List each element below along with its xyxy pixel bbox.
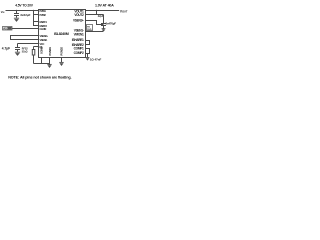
svg-text:22µF: 22µF [98,15,104,18]
svg-text:3x22µF: 3x22µF [20,13,30,17]
resistor box RVS [87,25,93,32]
svg-text:VSEN2-: VSEN2- [40,38,48,42]
wire VOUT rail [86,10,120,12]
ground triangle T4 [86,57,90,59]
wire COMP tie [86,49,90,54]
svg-text:VDD: VDD [3,29,8,31]
wire COMP tie ground stub [87,54,89,58]
svg-text:4.5V TO 20V: 4.5V TO 20V [15,3,34,7]
ground arrow under C1 [14,17,19,19]
junction dot rail-C1 [16,10,18,12]
svg-text:VIN: VIN [1,10,5,14]
wire VDD to CLKIN pin [12,28,39,30]
svg-text:ISL8240M: ISL8240M [54,32,69,36]
node VDD label box [3,27,13,31]
svg-text:RFS2: RFS2 [22,48,29,50]
svg-text:COMP2: COMP2 [74,51,84,55]
svg-text:VOUT: VOUT [120,9,128,13]
svg-text:VOUT2: VOUT2 [74,13,84,17]
capacitor C1 [14,11,19,18]
svg-text:PGND1: PGND1 [48,47,52,56]
svg-text:CLKIN: CLKIN [40,27,47,31]
junction dot rail drop [96,10,98,12]
svg-text:ISHARE1: ISHARE1 [72,38,84,42]
wire rail drop [96,11,98,15]
svg-text:NOTE: All pins not shown are f: NOTE: All pins not shown are floating. [8,76,71,80]
wire PGND2 pin stub [61,58,63,63]
svg-text:COMP1: COMP1 [74,46,84,50]
wire VSEN1- sense [86,31,104,33]
svg-text:EN/FF1: EN/FF1 [40,20,48,24]
wire VSEN1+ sense [86,21,104,25]
svg-text:VSEN2+: VSEN2+ [40,34,49,38]
wire EN bus [34,11,39,27]
wire VOUT2 to rail [86,14,104,16]
wire VIN rail [6,10,39,12]
junction dot rail-EN bus [33,10,35,12]
ground triangle T1 [47,63,51,65]
wire PGND1 pin stub [49,58,51,66]
wire VCC pin [18,43,39,45]
svg-text:VSEN1+: VSEN1+ [73,19,84,23]
svg-text:PVIN2: PVIN2 [40,13,47,17]
wire bottom ground bus [34,63,50,65]
svg-text:51kΩ: 51kΩ [22,52,28,54]
wire FS pin [34,46,39,48]
svg-text:3x470µF: 3x470µF [106,21,117,25]
svg-text:R1: R1 [87,26,91,28]
svg-text:51Ω: 51Ω [87,29,91,31]
ground triangle T3 [102,28,106,30]
svg-text:PVIN1: PVIN1 [40,9,47,13]
ground triangle T2 [59,61,63,63]
svg-text:PGND2: PGND2 [60,47,64,56]
svg-text:VMON1: VMON1 [74,32,84,36]
IC U1 ISL8240M power module [39,10,86,58]
wire VSEN2 loop [11,36,39,40]
svg-text:4.7µF: 4.7µF [2,46,10,50]
resistor RFS [32,47,35,64]
svg-text:1.0V AT 40A: 1.0V AT 40A [95,3,114,7]
svg-text:1Ω 47nF: 1Ω 47nF [90,58,102,62]
wire SGND pin stub [41,58,43,64]
capacitor C3 [101,15,106,30]
ground arrow under C2 [15,51,20,53]
svg-text:SGND: SGND [40,47,44,54]
capacitor C2 [15,44,20,52]
wire ISHARE tie [86,41,90,45]
